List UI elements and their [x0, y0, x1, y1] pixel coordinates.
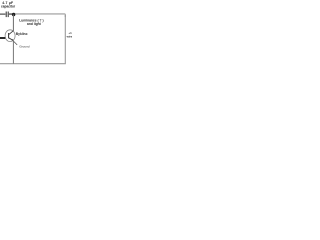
svg-text:Byklinc: Byklinc: [16, 32, 28, 36]
wire: bottom ground rail: [0, 63, 66, 65]
capacitor C1 lead (left stub): [0, 13, 5, 15]
wire: right vertical rail: [64, 15, 66, 64]
capacitor C1 right lead: [9, 13, 14, 15]
transistor Q1 circle: [5, 30, 15, 42]
label: luminance note: [19, 19, 43, 27]
wire: top rail from capacitor to right side: [9, 14, 65, 17]
transistor Q1 collector stroke: [9, 31, 14, 35]
transistor Q1 emitter stroke with arrow: [9, 38, 14, 41]
label: capacitor value text: [1, 1, 16, 8]
transistor Q1 base lead (thick black bar from left edge): [0, 37, 5, 39]
wire: vertical from junction to transistor collector: [12, 14, 14, 30]
leader arrow from Ground label to wire: [14, 41, 18, 45]
label: clipped note at right edge: [66, 31, 73, 38]
svg-text:and light: and light: [27, 22, 42, 26]
capacitor C1 plates: [5, 12, 7, 18]
transistor Q1 base bar: [8, 33, 10, 38]
node: junction dot: [12, 13, 16, 17]
svg-text:wire: wire: [66, 34, 72, 38]
wire: emitter down to ground rail: [12, 41, 14, 64]
svg-text:Ground: Ground: [19, 44, 30, 48]
svg-text:capacitor: capacitor: [1, 4, 16, 8]
